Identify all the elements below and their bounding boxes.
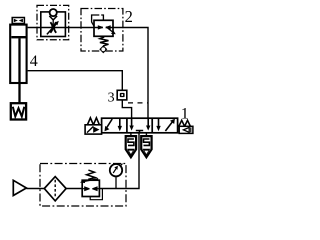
wire: supply line from valve P to FRL output — [99, 133, 139, 189]
valve 2 body square — [94, 20, 113, 36]
label 1 — [181, 106, 189, 123]
label 3 — [108, 91, 115, 106]
cylinder C4 bowtie head box — [12, 18, 24, 24]
valve 1 position dividers — [127, 118, 152, 133]
cylinder C4 piston — [11, 36, 26, 38]
valve 1 left spring — [87, 118, 101, 125]
cylinder C4 tube — [10, 25, 26, 83]
pressure gauge — [110, 164, 123, 177]
valve 2 flow eye symbol — [98, 25, 111, 29]
check valve ball — [50, 9, 57, 16]
flow control inner body — [41, 12, 66, 37]
valve 1 centre chamber blocked P — [136, 131, 143, 133]
silencer stub right — [145, 133, 147, 136]
one-way flow control valve enclosure (dash-dot) — [37, 5, 69, 39]
component 3 body — [117, 90, 127, 100]
valve 2 pilot line (dashed hook) — [92, 15, 104, 26]
workpiece box with W under rod — [11, 103, 26, 119]
wire: seat to line — [52, 20, 54, 28]
regulator adjust arrow — [80, 179, 98, 183]
filter diamond — [44, 177, 66, 201]
check valve seat — [49, 16, 57, 20]
valve 2 vent diamond with hole — [99, 45, 107, 53]
wire: pilot dashed line from node to vertical line — [124, 102, 148, 104]
regulator pilot loop — [90, 189, 102, 200]
label 2 — [125, 7, 133, 26]
cylinder C4 piston rod — [18, 38, 20, 103]
FRL unit enclosure (dash-dot) — [40, 164, 126, 207]
valve 1 centre chamber A vent arrow — [129, 118, 133, 130]
valve 1 left pilot box — [85, 125, 102, 134]
regulator body — [82, 180, 99, 196]
wire: FRL internal segments — [26, 188, 82, 190]
silencer left — [126, 136, 136, 157]
directional valve 1 body — [102, 118, 178, 133]
valve 2 spring — [100, 37, 109, 46]
valve 1 right pilot box — [179, 126, 193, 133]
valve 1 right spring — [178, 120, 191, 126]
svg-text:1: 1 — [181, 106, 189, 123]
air supply triangle — [13, 180, 26, 195]
throttle adjust arrow — [47, 21, 59, 35]
silencer stub left — [130, 133, 132, 136]
label 4 — [30, 53, 38, 70]
regulator flow eye — [82, 186, 99, 191]
wire: cylinder rod port line — [28, 71, 132, 119]
wire: gauge stem — [115, 177, 117, 189]
svg-text:4: 4 — [30, 53, 38, 70]
valve 2 adjust arrow — [106, 27, 116, 35]
silencer right — [141, 136, 151, 157]
sequence valve 2 enclosure (dash-dot) — [81, 9, 123, 52]
valve 1 left chamber arrows — [105, 118, 123, 131]
svg-text:3: 3 — [108, 91, 115, 106]
regulator spring — [87, 170, 96, 179]
wire: cylinder cap port to valve pilot line (top main line) — [28, 28, 148, 119]
component 3 inner element — [120, 93, 125, 97]
throttle restriction arcs — [50, 22, 56, 33]
valve 1 right chamber arrows — [156, 119, 175, 132]
svg-text:2: 2 — [125, 7, 133, 26]
valve 1 centre chamber B vent arrow — [146, 118, 150, 130]
